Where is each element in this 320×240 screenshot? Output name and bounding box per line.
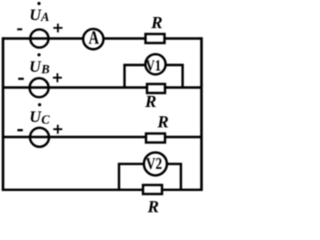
label UB xyxy=(31,53,50,73)
voltmeter V2 xyxy=(144,152,167,175)
phase B wire xyxy=(3,86,202,88)
polarity plus B xyxy=(53,73,62,82)
polarity plus A xyxy=(53,24,62,33)
resistor R4 xyxy=(143,185,162,194)
polarity minus A xyxy=(17,28,22,30)
phase C wire xyxy=(3,136,202,138)
label UC xyxy=(31,103,50,124)
label R2 xyxy=(145,96,156,107)
right rail wire xyxy=(200,37,203,191)
source UC xyxy=(30,128,49,147)
voltmeter V2 branch wire xyxy=(119,164,181,190)
voltmeter V1 branch wire xyxy=(125,65,183,88)
label R4 xyxy=(148,201,159,212)
polarity plus C xyxy=(53,125,62,134)
polarity minus C xyxy=(17,129,22,131)
neutral bottom wire xyxy=(3,189,202,191)
label R3 xyxy=(157,116,168,127)
ammeter A xyxy=(83,29,103,49)
left rail wire xyxy=(2,37,5,191)
label UA xyxy=(31,2,49,21)
label R1 xyxy=(151,17,162,28)
resistor R3 xyxy=(146,134,165,143)
polarity minus B xyxy=(18,78,24,80)
resistor R1 xyxy=(146,34,165,43)
source UA xyxy=(30,29,48,47)
voltmeter V1 xyxy=(145,54,165,74)
phase A wire xyxy=(3,37,202,39)
resistor R2 xyxy=(147,84,165,93)
source UB xyxy=(30,78,49,97)
